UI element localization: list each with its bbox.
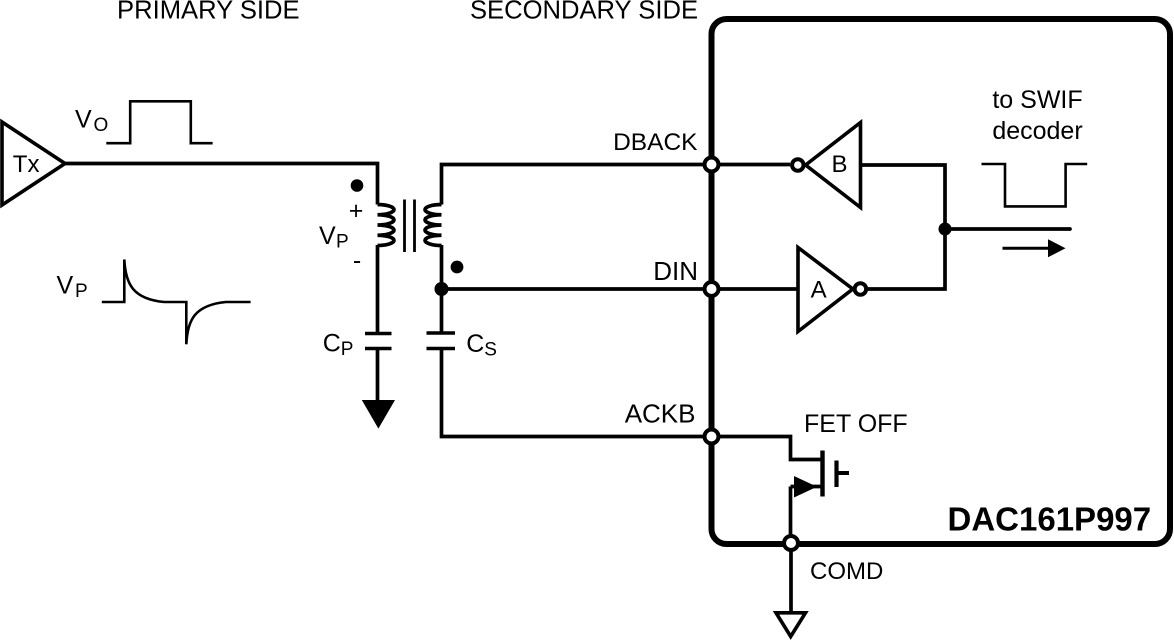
svg-text:FET OFF: FET OFF [804, 410, 908, 438]
svg-text:COMD: COMD [810, 558, 883, 585]
label VP waveform [57, 272, 88, 303]
waveform VO pulse [106, 101, 212, 143]
ground COMD [776, 613, 806, 637]
wire DIN row [442, 287, 798, 291]
svg-text:C: C [466, 330, 484, 358]
wire ACKB node to FET [712, 437, 823, 460]
wire CS to ACKB row [442, 349, 712, 437]
wire transformer secondary top to DBACK [442, 165, 791, 205]
waveform inverted pulse [982, 164, 1088, 206]
label CP [323, 330, 354, 361]
transformer T1 secondary winding [425, 205, 442, 246]
svg-text:V: V [57, 272, 74, 300]
ground primary [362, 400, 395, 429]
transformer T1 core [405, 200, 415, 253]
svg-text:P: P [336, 232, 349, 253]
svg-text:C: C [323, 330, 341, 358]
svg-text:ACKB: ACKB [625, 399, 696, 429]
node DIN [705, 282, 719, 296]
svg-text:DIN: DIN [653, 256, 698, 286]
svg-text:Tx: Tx [13, 151, 40, 178]
svg-text:B: B [832, 151, 848, 178]
svg-text:PRIMARY SIDE: PRIMARY SIDE [117, 0, 300, 25]
arrow signal direction [1003, 239, 1066, 257]
svg-text:S: S [484, 340, 497, 361]
wire secondary coil to CS [440, 245, 444, 333]
wire A output to junction [868, 229, 945, 289]
svg-text:DBACK: DBACK [613, 129, 698, 156]
transistor Q1 FET [791, 451, 850, 544]
capacitor CP [365, 334, 392, 349]
label CS [466, 330, 497, 361]
inverter A [798, 248, 866, 332]
inverter B [792, 123, 860, 208]
node COMD [784, 536, 798, 550]
waveform VP spikes [102, 260, 251, 345]
svg-text:O: O [94, 115, 109, 136]
wire primary coil to CP [376, 245, 380, 334]
svg-text:A: A [811, 276, 827, 303]
svg-text:DAC161P997: DAC161P997 [948, 501, 1152, 538]
svg-text:-: - [353, 247, 361, 275]
transformer T1 primary winding [378, 205, 395, 246]
label VO [75, 106, 108, 137]
node junction secondary DIN [435, 282, 449, 296]
wire CP to ground [376, 349, 380, 403]
svg-text:P: P [341, 339, 354, 360]
wire COMD to ground [789, 543, 793, 613]
buffer Tx [2, 122, 65, 205]
wire Tx output to transformer primary [65, 164, 378, 205]
chip U1 DAC161P997 outline [712, 19, 1171, 544]
svg-text:SECONDARY SIDE: SECONDARY SIDE [470, 0, 698, 25]
svg-text:V: V [319, 222, 336, 250]
label VP primary [319, 222, 349, 253]
svg-text:+: + [349, 197, 364, 225]
phase dot secondary [451, 261, 464, 274]
phase dot primary [351, 179, 364, 192]
node DBACK [705, 158, 719, 172]
svg-text:P: P [75, 281, 88, 302]
node ACKB [705, 430, 719, 444]
node junction gates [939, 223, 952, 236]
wire B input from junction [860, 165, 946, 229]
capacitor CS [427, 333, 456, 349]
svg-text:decoder: decoder [992, 117, 1082, 145]
svg-text:V: V [75, 106, 92, 134]
svg-text:to SWIF: to SWIF [992, 86, 1082, 114]
wire junction to decoder [945, 227, 1070, 231]
